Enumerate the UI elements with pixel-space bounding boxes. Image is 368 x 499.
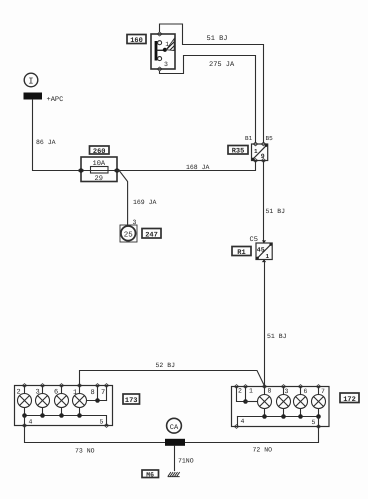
- svg-text:7: 7: [321, 388, 325, 395]
- svg-text:51 BJ: 51 BJ: [207, 35, 228, 43]
- svg-text:86 JA: 86 JA: [36, 139, 56, 146]
- ignition switch 160: [151, 32, 186, 71]
- svg-text:260: 260: [93, 148, 106, 156]
- wire 51 BJ lower: [265, 260, 287, 387]
- wire 73 NO: [25, 426, 166, 455]
- label box 260: [90, 146, 110, 156]
- connector CA: [167, 418, 182, 433]
- svg-text:B1: B1: [245, 135, 253, 142]
- +APC supply bar: [24, 93, 64, 105]
- fuse box 260 10A: [78, 157, 120, 183]
- svg-text:169 JA: 169 JA: [133, 199, 157, 206]
- wire 275 JA: [160, 56, 256, 143]
- label box 172: [340, 393, 359, 404]
- label box 160: [127, 35, 146, 46]
- svg-text:5: 5: [100, 419, 104, 426]
- svg-text:4: 4: [241, 418, 245, 425]
- svg-text:R35: R35: [232, 148, 245, 156]
- ground M6: [168, 473, 179, 477]
- lamp cluster 173: [15, 384, 113, 428]
- svg-text:R1: R1: [237, 249, 245, 257]
- wire 71 NO: [175, 446, 194, 471]
- svg-text:2: 2: [238, 388, 242, 395]
- connector C5 R1: [250, 236, 273, 262]
- wire 51 BJ top: [160, 24, 264, 143]
- label box R35: [228, 146, 248, 156]
- svg-text:72 NO: 72 NO: [253, 447, 273, 454]
- wire 52 BJ: [80, 362, 265, 386]
- svg-text:M6: M6: [146, 471, 154, 478]
- svg-text:3: 3: [164, 61, 168, 68]
- label box 173: [123, 394, 140, 405]
- svg-text:45: 45: [257, 246, 265, 253]
- svg-text:275 JA: 275 JA: [209, 61, 235, 69]
- svg-text:3: 3: [133, 219, 137, 226]
- svg-text:173: 173: [125, 397, 138, 405]
- wire 51 BJ middle: [264, 161, 286, 244]
- splice bar: [165, 439, 185, 446]
- wire 169 JA: [120, 171, 157, 226]
- svg-text:8: 8: [268, 388, 272, 395]
- connector unit R35: [245, 135, 273, 162]
- svg-text:247: 247: [145, 231, 158, 239]
- svg-text:1: 1: [165, 41, 169, 48]
- ground point 25 with square: [120, 219, 137, 242]
- svg-text:I: I: [28, 77, 33, 87]
- svg-text:160: 160: [130, 37, 143, 45]
- supply symbol circle 1: [24, 73, 38, 87]
- svg-text:29: 29: [95, 175, 103, 183]
- wire 168 JA: [117, 162, 256, 172]
- svg-text:168 JA: 168 JA: [186, 164, 210, 171]
- svg-text:4: 4: [29, 419, 33, 426]
- svg-text:25: 25: [124, 231, 134, 240]
- svg-text:1: 1: [266, 253, 270, 260]
- label box 247: [142, 229, 161, 240]
- svg-text:1: 1: [254, 148, 258, 155]
- svg-text:51 BJ: 51 BJ: [267, 333, 287, 340]
- label box R1: [232, 247, 251, 258]
- svg-text:5: 5: [312, 419, 316, 426]
- svg-text:172: 172: [343, 396, 356, 404]
- wire 72 NO: [185, 427, 319, 454]
- svg-text:1: 1: [249, 388, 253, 395]
- svg-text:3: 3: [285, 388, 289, 395]
- label box M6: [142, 470, 159, 478]
- svg-text:73 NO: 73 NO: [75, 448, 95, 455]
- svg-text:71NO: 71NO: [178, 458, 194, 465]
- wire 86 JA: [33, 100, 82, 171]
- svg-text:6: 6: [304, 388, 308, 395]
- svg-text:8: 8: [91, 389, 95, 397]
- svg-text:52 BJ: 52 BJ: [156, 362, 176, 369]
- svg-text:+APC: +APC: [47, 96, 64, 104]
- svg-text:CA: CA: [170, 424, 179, 432]
- lamp cluster 172: [232, 385, 330, 429]
- svg-text:B5: B5: [266, 135, 274, 142]
- svg-text:7: 7: [101, 389, 105, 397]
- svg-text:51 BJ: 51 BJ: [266, 208, 286, 215]
